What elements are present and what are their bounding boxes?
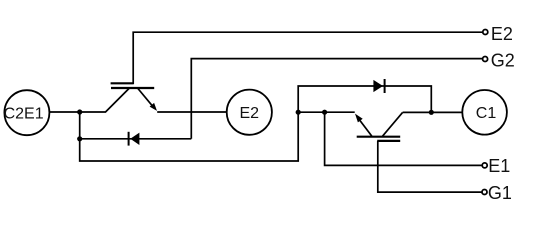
svg-text:C2E1: C2E1 (4, 106, 44, 123)
svg-text:E2: E2 (240, 105, 260, 122)
svg-text:E1: E1 (488, 156, 510, 176)
svg-text:E2: E2 (491, 24, 513, 44)
svg-text:C1: C1 (476, 105, 497, 122)
svg-text:G2: G2 (491, 50, 515, 70)
svg-text:G1: G1 (488, 183, 512, 203)
